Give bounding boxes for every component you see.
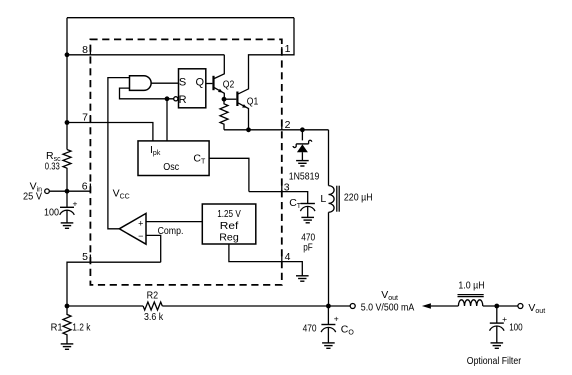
svg-text:2: 2 bbox=[285, 119, 291, 131]
svg-text:+: + bbox=[334, 313, 339, 323]
node R line junction bbox=[165, 96, 170, 101]
svg-text:R2: R2 bbox=[147, 289, 159, 301]
svg-text:470: 470 bbox=[303, 323, 317, 335]
ground (pin 4) bbox=[296, 276, 309, 281]
ground (CT cap) bbox=[301, 217, 314, 222]
wire pin 4 bbox=[229, 244, 302, 276]
capacitor 100 (filter) bbox=[496, 306, 498, 323]
svg-text:8: 8 bbox=[82, 44, 88, 56]
resistor Rsc bbox=[63, 150, 71, 169]
wire bottom rail left bbox=[67, 305, 143, 307]
wire top rail bbox=[67, 17, 294, 19]
pin 3 tick bbox=[281, 184, 283, 192]
wire Rsc to Vin node bbox=[66, 168, 68, 191]
svg-text:1.25 V: 1.25 V bbox=[217, 208, 241, 220]
node Q1 emitter on rail bbox=[246, 127, 251, 132]
node output junction bbox=[326, 304, 331, 309]
svg-text:Q: Q bbox=[196, 76, 205, 88]
svg-text:100: 100 bbox=[44, 207, 59, 219]
wire oscillator line to AND bottom input and latch R bbox=[120, 88, 174, 99]
wire filter input bbox=[431, 305, 459, 307]
capacitor 100 (input) bbox=[66, 191, 68, 207]
inductor core bars (filter) bbox=[458, 294, 484, 296]
svg-text:1: 1 bbox=[285, 43, 291, 55]
inductor L 220uH bbox=[328, 130, 330, 186]
capacitor CT external 470pF bbox=[301, 203, 315, 205]
oscillator block bbox=[138, 141, 209, 176]
inductor core bars bbox=[336, 186, 338, 212]
wire comparator + to ref reg bbox=[146, 221, 202, 223]
pin 4 tick bbox=[281, 254, 283, 262]
latch U1b bbox=[179, 69, 206, 108]
terminal Vin bbox=[45, 189, 50, 194]
reference regulator block bbox=[202, 204, 256, 244]
svg-text:100: 100 bbox=[509, 321, 523, 333]
svg-text:6: 6 bbox=[82, 180, 88, 192]
svg-text:220 µH: 220 µH bbox=[344, 191, 373, 203]
svg-text:Osc: Osc bbox=[163, 161, 179, 173]
node pin7 junction bbox=[65, 120, 70, 125]
inductor 1.0uH bbox=[458, 300, 482, 306]
wire latch Q to Q2 base bbox=[206, 83, 213, 85]
ground (diode) bbox=[296, 161, 309, 166]
arrow to optional filter bbox=[422, 303, 431, 308]
ground (Co) bbox=[322, 343, 335, 348]
svg-text:5: 5 bbox=[82, 251, 88, 263]
svg-text:Optional Filter: Optional Filter bbox=[467, 355, 522, 367]
resistor R1 bbox=[63, 306, 71, 344]
svg-text:Ref: Ref bbox=[220, 220, 239, 232]
AND gate U1a bbox=[130, 76, 152, 91]
node bottom-left junction bbox=[65, 304, 70, 309]
pin 1 tick bbox=[281, 47, 283, 55]
svg-text:R: R bbox=[179, 94, 187, 106]
svg-text:R1: R1 bbox=[51, 322, 63, 334]
svg-text:25 V: 25 V bbox=[23, 191, 42, 203]
svg-text:Reg: Reg bbox=[219, 231, 239, 243]
svg-text:3.6 k: 3.6 k bbox=[144, 311, 164, 323]
wire pin 2 rail bbox=[224, 129, 329, 131]
terminal Vout (filter) bbox=[518, 304, 523, 309]
wire comparator output to AND top input bbox=[108, 78, 130, 229]
svg-text:1.0 µH: 1.0 µH bbox=[458, 279, 484, 291]
ground (input cap) bbox=[61, 223, 74, 228]
ground (R1) bbox=[61, 344, 74, 349]
svg-text:S: S bbox=[179, 76, 186, 88]
wire pin 5 bbox=[67, 262, 161, 306]
svg-text:7: 7 bbox=[82, 112, 88, 124]
node diode tap bbox=[300, 127, 305, 132]
diode D1 1N5819 bbox=[301, 130, 303, 141]
wire pin 7 to Ipk bbox=[67, 123, 153, 141]
svg-text:Comp.: Comp. bbox=[158, 225, 184, 237]
terminal Vout bbox=[350, 304, 355, 309]
wire pin 3 bbox=[249, 192, 308, 204]
wire bottom rail right bbox=[162, 305, 350, 307]
wire AND output to latch S bbox=[151, 82, 178, 84]
wire filter output bbox=[483, 305, 518, 307]
pin 6 tick bbox=[89, 184, 91, 192]
pin 5 tick bbox=[89, 255, 91, 263]
svg-text:Q1: Q1 bbox=[247, 95, 259, 107]
svg-text:+: + bbox=[73, 199, 78, 209]
svg-text:Q2: Q2 bbox=[223, 79, 235, 91]
resistor Q2 base-emitter bbox=[220, 99, 228, 130]
svg-text:0.33: 0.33 bbox=[45, 160, 60, 172]
inverter bubble at R bbox=[174, 97, 178, 101]
node Q2 emitter junction bbox=[222, 97, 227, 102]
wire left rail bbox=[66, 18, 68, 150]
IC package dashed boundary bbox=[90, 39, 281, 285]
svg-text:1N5819: 1N5819 bbox=[289, 170, 320, 182]
wire pin 8 bbox=[67, 54, 224, 56]
comparator bbox=[119, 213, 146, 244]
wire osc CT output to pin 3 bbox=[209, 158, 249, 191]
svg-text:+: + bbox=[138, 219, 143, 229]
capacitor Co 470 bbox=[327, 306, 329, 325]
node filter cap junction bbox=[494, 304, 499, 309]
ground (filter cap) bbox=[491, 343, 504, 348]
svg-text:1.2 k: 1.2 k bbox=[72, 322, 91, 334]
svg-text:5.0 V/500 mA: 5.0 V/500 mA bbox=[361, 301, 415, 313]
pin 7 tick bbox=[89, 115, 91, 123]
wire pin 6 (Vin) bbox=[49, 190, 90, 192]
node Vin junction bbox=[65, 189, 70, 194]
svg-text:L: L bbox=[320, 193, 326, 205]
node pin8 junction bbox=[65, 52, 70, 57]
svg-text:+: + bbox=[502, 314, 507, 324]
resistor R2 bbox=[143, 302, 162, 310]
pin 8 tick bbox=[89, 47, 91, 55]
wire comparator - to pin 5 bbox=[146, 235, 161, 262]
svg-text:pF: pF bbox=[303, 242, 313, 254]
transistor Q2 bbox=[212, 76, 214, 90]
wire R line to oscillator bbox=[166, 99, 168, 141]
wire Q2 emitter to Q1 base bbox=[224, 98, 236, 100]
svg-text:−: − bbox=[138, 231, 143, 241]
transistor Q1 bbox=[236, 92, 238, 107]
pin 2 tick bbox=[281, 122, 283, 130]
